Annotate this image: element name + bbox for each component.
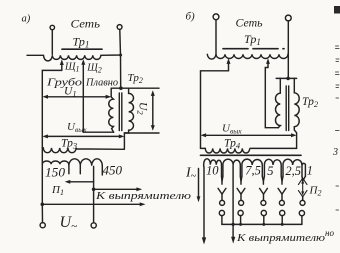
- svg-text:а): а): [22, 14, 31, 25]
- svg-text:Тр1: Тр1: [244, 32, 261, 47]
- terminal bottom-mid: [91, 223, 96, 228]
- svg-text:Щ2: Щ2: [86, 63, 101, 75]
- Tr4 core bar: [201, 154, 302, 156]
- terminal left-1: [50, 25, 54, 29]
- wire slider1 to left rail (right circuit): [201, 71, 229, 149]
- arch segment 10: [204, 159, 222, 176]
- junction dot tap output: [92, 188, 96, 192]
- arch segment 2,5: [283, 159, 302, 176]
- Tr3 output tap wire: [93, 167, 95, 223]
- junction dot socket4-rail: [281, 223, 284, 226]
- switch P1 arm: [68, 181, 94, 183]
- current I~ arrow: [198, 169, 200, 198]
- svg-text:150: 150: [45, 165, 66, 180]
- junction dot socket2-rail: [239, 223, 242, 226]
- wire slider Sh1 to left rail: [42, 70, 62, 204]
- Tr2 secondary winding: [124, 88, 133, 133]
- Tr2 primary winding: [109, 88, 114, 132]
- svg-text:Плавно: Плавно: [85, 78, 118, 89]
- svg-text:3: 3: [332, 147, 338, 158]
- slider Sh2 arrow: [82, 62, 84, 132]
- tap 1 join and plug contact: [222, 176, 223, 181]
- voltage U1 dimension arrow: [45, 96, 108, 98]
- Tr2 secondary lead down to Tr3: [123, 133, 125, 149]
- arch segment 7,5: [242, 159, 262, 176]
- bottom rail (right circuit): [222, 223, 302, 225]
- svg-text:1: 1: [307, 164, 313, 178]
- svg-text:Щ1: Щ1: [64, 62, 79, 74]
- junction dot socket3-rail: [262, 223, 265, 226]
- socket 1: [219, 210, 224, 215]
- junction dot rail crossing: [232, 223, 235, 226]
- arch segment between tap1-tap2: [223, 159, 240, 176]
- junction winding right end: [119, 54, 122, 57]
- autotransformer Tr1 winding (left circuit): [27, 55, 121, 61]
- svg-text:10: 10: [206, 164, 219, 178]
- socket 2: [238, 210, 243, 215]
- Tr2 right junction dot: [286, 77, 290, 81]
- terminal left-2: [117, 25, 122, 30]
- svg-text:Uвых: Uвых: [67, 121, 87, 134]
- Tr1 core bar: [62, 48, 102, 50]
- winding end stub: [302, 163, 305, 176]
- slider Sh1 arrow: [61, 62, 63, 70]
- Tr1 core bar right: [223, 48, 284, 50]
- voltage Uvyh dimension arrow (left): [45, 135, 122, 137]
- bottom rail with arrow (left circuit): [42, 203, 142, 205]
- svg-text:Uвых: Uвых: [222, 123, 242, 136]
- tap 5 join: [302, 176, 305, 181]
- svg-text:I~: I~: [185, 166, 197, 183]
- tap 4 join and plug contact: [281, 176, 283, 181]
- transformer Tr3 secondary winding: [42, 159, 102, 166]
- svg-text:Тр4: Тр4: [224, 138, 241, 151]
- wire terminal2 down to Tr2: [119, 30, 122, 88]
- socket 4: [280, 210, 285, 215]
- Tr2 right secondary winding: [294, 78, 299, 148]
- wire to terminal bottom-left: [41, 204, 43, 222]
- voltage Uvyh dimension arrow (right): [203, 134, 293, 136]
- Tr4 long tap output line (second rectifier lead): [232, 166, 234, 240]
- svg-text:Сеть: Сеть: [71, 17, 101, 31]
- wire terminal2 down to Tr2 right: [287, 21, 289, 78]
- svg-text:Тр3: Тр3: [61, 138, 77, 151]
- svg-text:U2: U2: [136, 102, 149, 115]
- wire slider Sh2 to Tr2 primary bottom: [83, 131, 113, 133]
- Tr3 tap ticks: [68, 166, 70, 174]
- svg-text:Тр2: Тр2: [128, 72, 143, 85]
- slider 2 arrow (right circuit): [267, 61, 269, 67]
- wire slider2 to Tr2 primary bottom: [265, 68, 278, 128]
- svg-text:б): б): [186, 11, 196, 23]
- transformer Tr2 left: top line: [111, 87, 159, 89]
- svg-text:5: 5: [267, 164, 273, 178]
- transformer Tr2 right: top line: [276, 77, 296, 79]
- terminal right-2: [285, 15, 291, 21]
- plug P2 symbol (double arrow plug): [298, 178, 307, 185]
- svg-text:П2: П2: [309, 185, 322, 198]
- page edge artifact dash mid: [336, 130, 340, 132]
- svg-text:Тр2: Тр2: [302, 96, 319, 109]
- svg-text:Тр1: Тр1: [73, 34, 90, 49]
- Tr2 bottom line to U2 reference: [124, 132, 159, 134]
- svg-text:К выпрямителю: К выпрямителю: [236, 232, 325, 244]
- transformer Tr4 primary winding: [201, 148, 297, 153]
- svg-text:7,5: 7,5: [245, 164, 261, 178]
- terminal right-1: [213, 14, 219, 20]
- svg-text:U~: U~: [60, 214, 78, 233]
- terminal bottom-left: [40, 223, 45, 228]
- Tr2 right primary winding: [276, 78, 281, 127]
- svg-text:но: но: [325, 228, 334, 238]
- Tr2 junction dot: [119, 86, 123, 90]
- tap 3 join and plug contact: [262, 176, 264, 181]
- arch segment 5: [264, 159, 281, 176]
- socket 3: [261, 210, 266, 215]
- Tr2 right core: [285, 86, 287, 131]
- svg-text:2,5: 2,5: [285, 164, 301, 178]
- junction dot bottom left: [41, 203, 45, 207]
- Tr4 secondary left lead arrow down: [203, 167, 205, 240]
- tap 2 join and plug contact: [240, 176, 242, 181]
- Tr2 core: [118, 93, 120, 131]
- page edge artifact top-right: [334, 6, 340, 14]
- page edge artifact marks right: [336, 46, 340, 49]
- autotransformer Tr1 winding (right circuit): [207, 54, 288, 59]
- voltage U2 dimension arrow: [152, 93, 154, 128]
- wire terminal1 to winding: [51, 30, 53, 54]
- svg-text:Сеть: Сеть: [236, 16, 264, 30]
- svg-text:П1: П1: [51, 184, 64, 197]
- socket 5: [299, 211, 304, 216]
- wire terminal to winding hook: [215, 20, 217, 55]
- wire to rectifier upper arrow: [94, 188, 139, 190]
- transformer Tr3 primary winding: [42, 148, 124, 153]
- svg-text:К выпрямителю: К выпрямителю: [95, 190, 192, 202]
- svg-text:450: 450: [103, 162, 123, 177]
- slider 1 arrow (right circuit): [228, 61, 230, 71]
